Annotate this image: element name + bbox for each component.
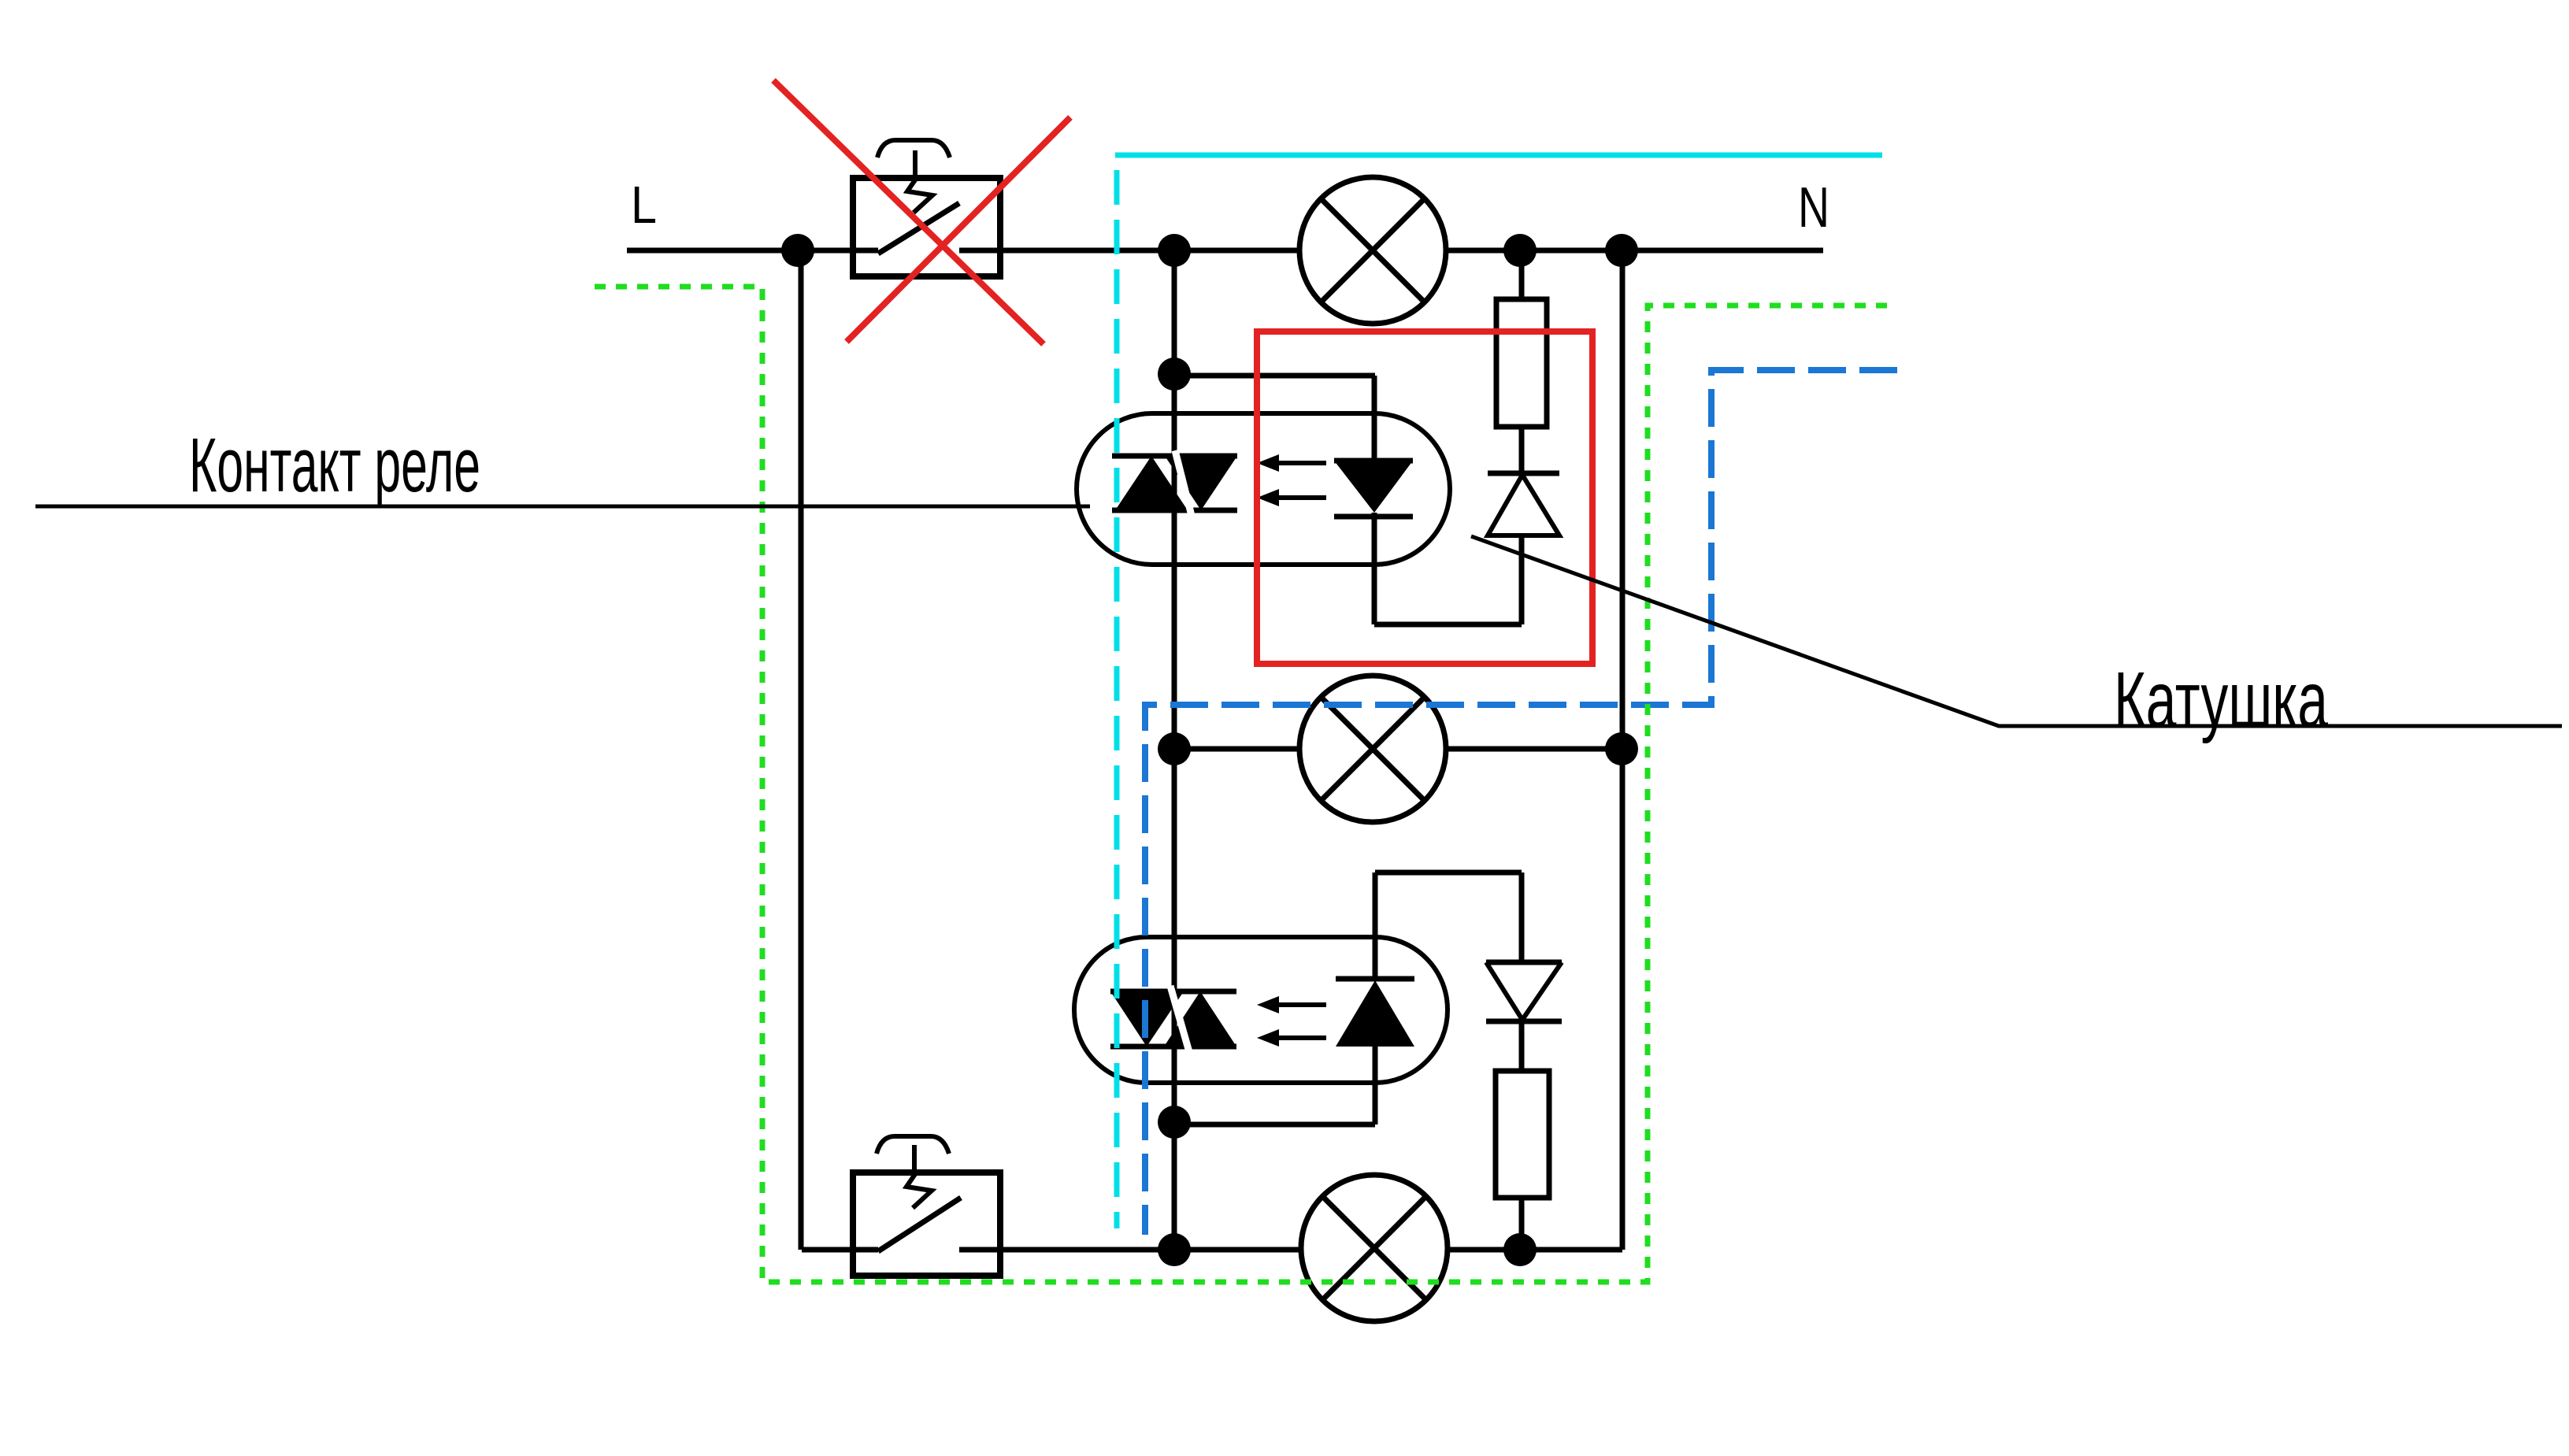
svg-text:Катушка: Катушка	[2114, 656, 2328, 744]
svg-text:L: L	[631, 176, 657, 235]
svg-text:N: N	[1798, 176, 1829, 239]
svg-text:Контакт реле: Контакт реле	[189, 422, 480, 508]
